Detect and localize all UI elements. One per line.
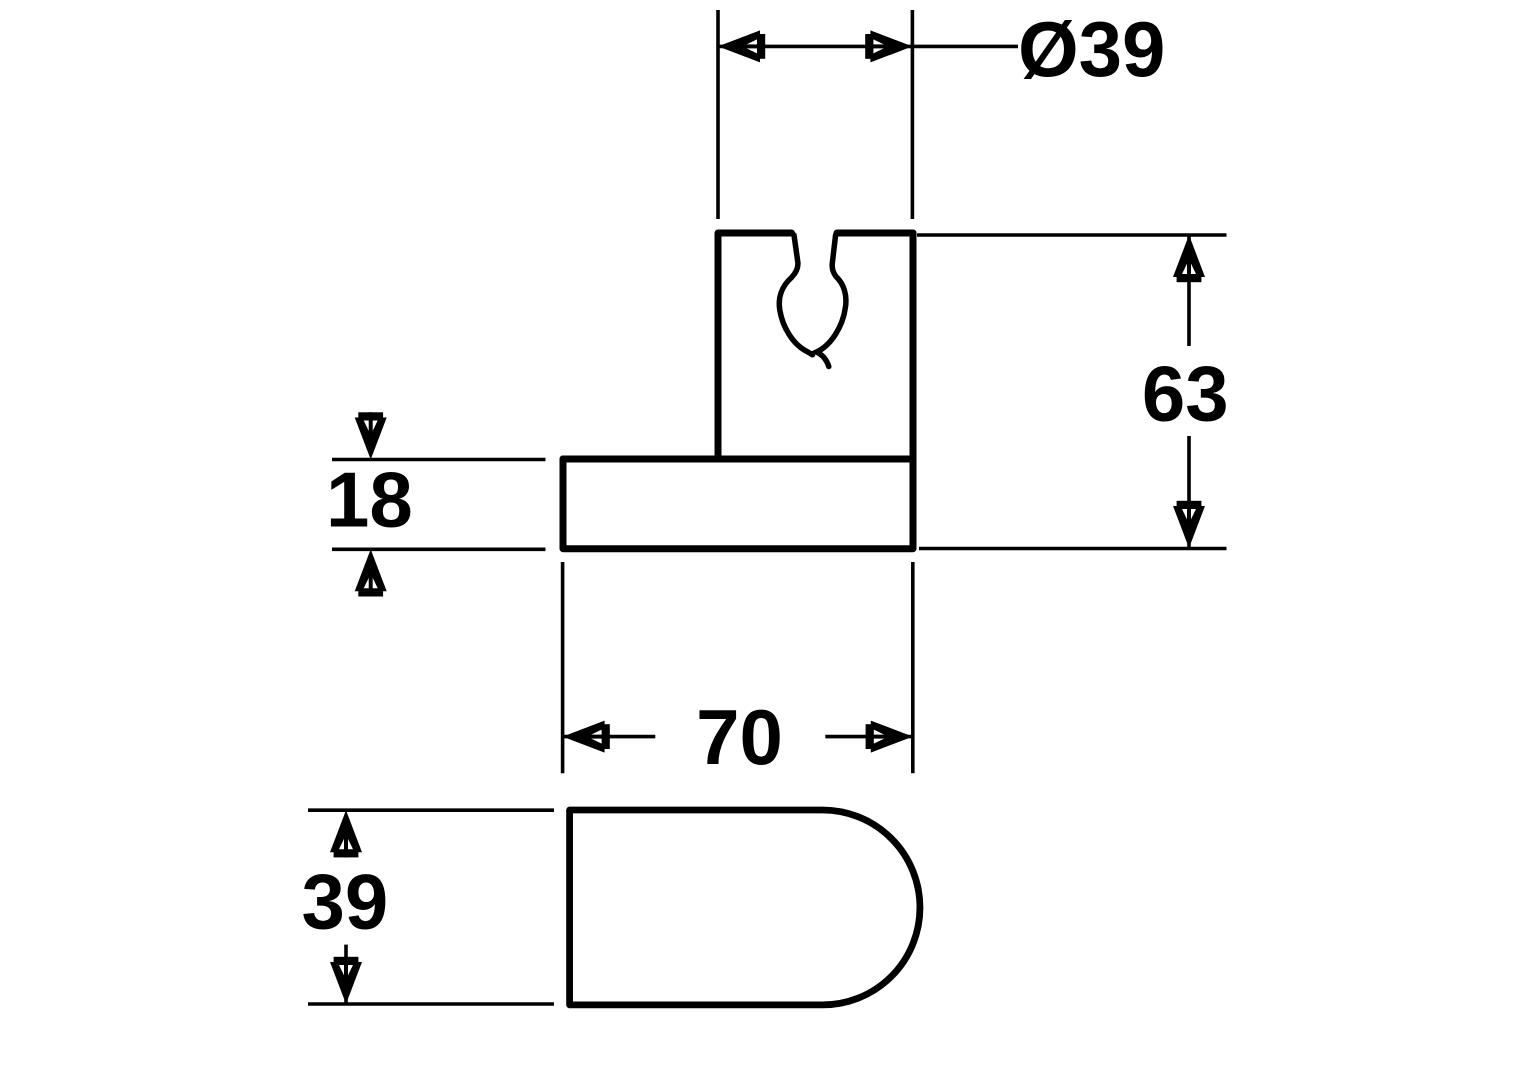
svg-text:63: 63 (1142, 350, 1229, 438)
svg-text:39: 39 (302, 858, 389, 946)
svg-text:18: 18 (326, 456, 413, 544)
svg-text:70: 70 (696, 693, 783, 781)
svg-text:Ø39: Ø39 (1018, 5, 1165, 93)
